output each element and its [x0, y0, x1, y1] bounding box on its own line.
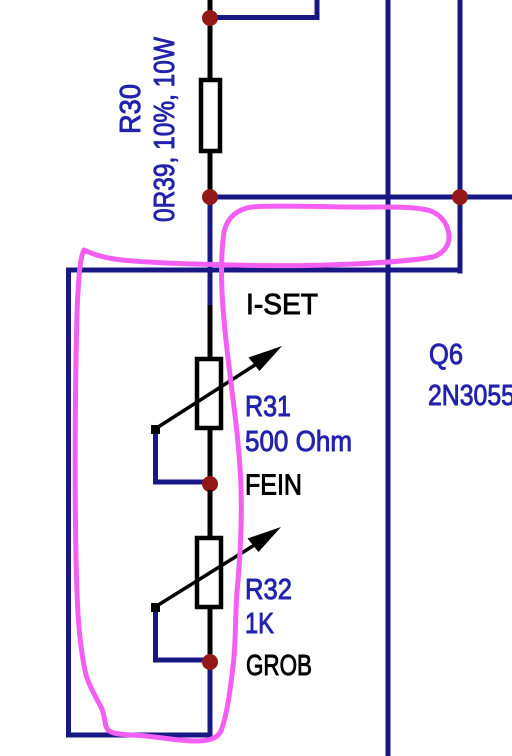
- lead R31 to FEIN node: [208, 428, 213, 478]
- svg-text:R31: R31: [245, 391, 291, 423]
- svg-text:FEIN: FEIN: [245, 470, 302, 502]
- R31 wiper arrow shaft: [155, 361, 262, 430]
- wire vertical x=460 top to junction: [458, 0, 463, 197]
- svg-text:I-SET: I-SET: [246, 289, 318, 321]
- node GROB: [202, 654, 218, 670]
- lead above top node: [208, 0, 213, 14]
- lead I-SET stub to R31: [208, 305, 213, 359]
- wire R32 wiper: vertical + horizontal to GROB node: [156, 609, 209, 660]
- svg-text:2N3055: 2N3055: [428, 380, 512, 412]
- svg-text:1K: 1K: [245, 608, 275, 640]
- wire horizontal y=197 from node to right edge: [207, 195, 512, 200]
- wire vertical x=210 node to I-SET stub: [208, 197, 213, 305]
- R32 wiper arrow shaft: [155, 541, 261, 607]
- svg-text:R30: R30: [115, 84, 147, 134]
- svg-text:R32: R32: [245, 574, 292, 606]
- R32 wiper terminal square: [151, 603, 160, 612]
- wire R31 wiper: vertical + horizontal to FEIN node: [156, 431, 209, 482]
- node right junction: [452, 189, 468, 205]
- svg-text:GROB: GROB: [246, 650, 312, 682]
- lead top node to R30: [208, 22, 213, 80]
- wire vertical x=388 full height: [386, 0, 391, 756]
- R31 arrowhead: [249, 346, 283, 371]
- wire vertical x=210 GROB node to bottom wire: [208, 662, 213, 738]
- node FEIN: [202, 476, 218, 492]
- node below R30: [202, 189, 218, 205]
- annotation marker loop (magenta): [75, 206, 449, 741]
- svg-text:0R39, 10%, 10W: 0R39, 10%, 10W: [149, 36, 181, 222]
- svg-text:500 Ohm: 500 Ohm: [245, 426, 352, 458]
- R32 arrowhead: [248, 527, 282, 552]
- wire horizontal y=271 from x=68 to x=460: [66, 268, 463, 273]
- node top junction: [202, 10, 218, 26]
- R31 wiper terminal square: [151, 425, 160, 434]
- wire vertical corner x=316 up to top edge: [315, 0, 320, 20]
- wire vertical x=460 junction down to y=271: [458, 197, 463, 274]
- potentiometer R31 body: [197, 359, 221, 428]
- wire horizontal top y=18 node to corner: [208, 15, 317, 20]
- lead FEIN node to R32: [208, 490, 213, 538]
- lead R30 to lower node: [208, 151, 213, 192]
- wire vertical left x=68 down to bottom: [66, 269, 71, 738]
- potentiometer R32 body: [197, 538, 221, 607]
- resistor R30 body: [201, 80, 220, 151]
- lead R32 to GROB node: [208, 607, 213, 657]
- svg-text:Q6: Q6: [429, 339, 463, 371]
- wire horizontal bottom y=735: [66, 733, 212, 738]
